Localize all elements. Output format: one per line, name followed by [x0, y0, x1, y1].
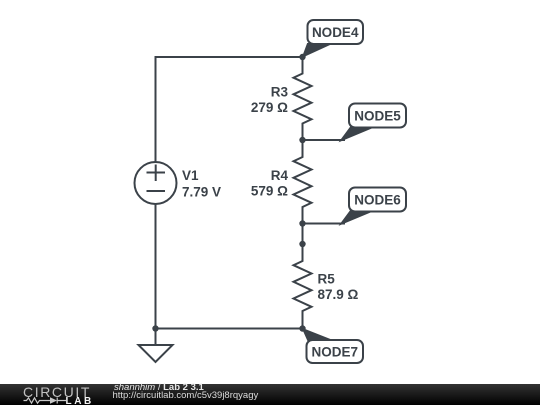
flag NODE5 [340, 104, 406, 142]
svg-text:NODE7: NODE7 [312, 344, 359, 359]
svg-text:R5: R5 [318, 272, 336, 287]
wire bottom horizontal [156, 328, 303, 330]
resistor R3 [294, 57, 312, 140]
svg-text:279 Ω: 279 Ω [251, 100, 288, 115]
ground [155, 329, 157, 346]
svg-text:NODE6: NODE6 [354, 192, 401, 207]
flag NODE7 [303, 329, 364, 364]
svg-text:LAB: LAB [66, 396, 94, 405]
svg-text:V1: V1 [182, 168, 199, 183]
flag NODE4 [303, 20, 364, 57]
CircuitLab logo [0, 384, 100, 405]
node B junction NODE5 [299, 137, 305, 143]
wire left bus lower [155, 204, 157, 329]
svg-text:NODE4: NODE4 [312, 25, 359, 40]
svg-text:NODE5: NODE5 [354, 108, 401, 123]
node A junction top [299, 54, 305, 60]
resistor R5 [294, 244, 312, 329]
node F junction bottom left [152, 325, 158, 331]
wire left bus upper [155, 57, 157, 162]
voltage source V1 [135, 162, 177, 204]
svg-text:7.79 V: 7.79 V [182, 185, 221, 200]
node D junction mid [299, 241, 305, 247]
wire top horizontal [156, 56, 303, 58]
resistor R4 [294, 140, 312, 224]
svg-text:579 Ω: 579 Ω [251, 184, 288, 199]
wire stub NODE5 [303, 139, 345, 141]
flag NODE6 [340, 188, 406, 225]
svg-text:87.9 Ω: 87.9 Ω [318, 287, 359, 302]
svg-text:R3: R3 [271, 85, 289, 100]
svg-text:R4: R4 [271, 168, 289, 183]
wire mid right [302, 224, 304, 245]
footer bar [0, 384, 540, 405]
node E junction bottom right [299, 325, 305, 331]
node C junction NODE6 [299, 220, 305, 226]
wire stub NODE6 [303, 223, 345, 225]
